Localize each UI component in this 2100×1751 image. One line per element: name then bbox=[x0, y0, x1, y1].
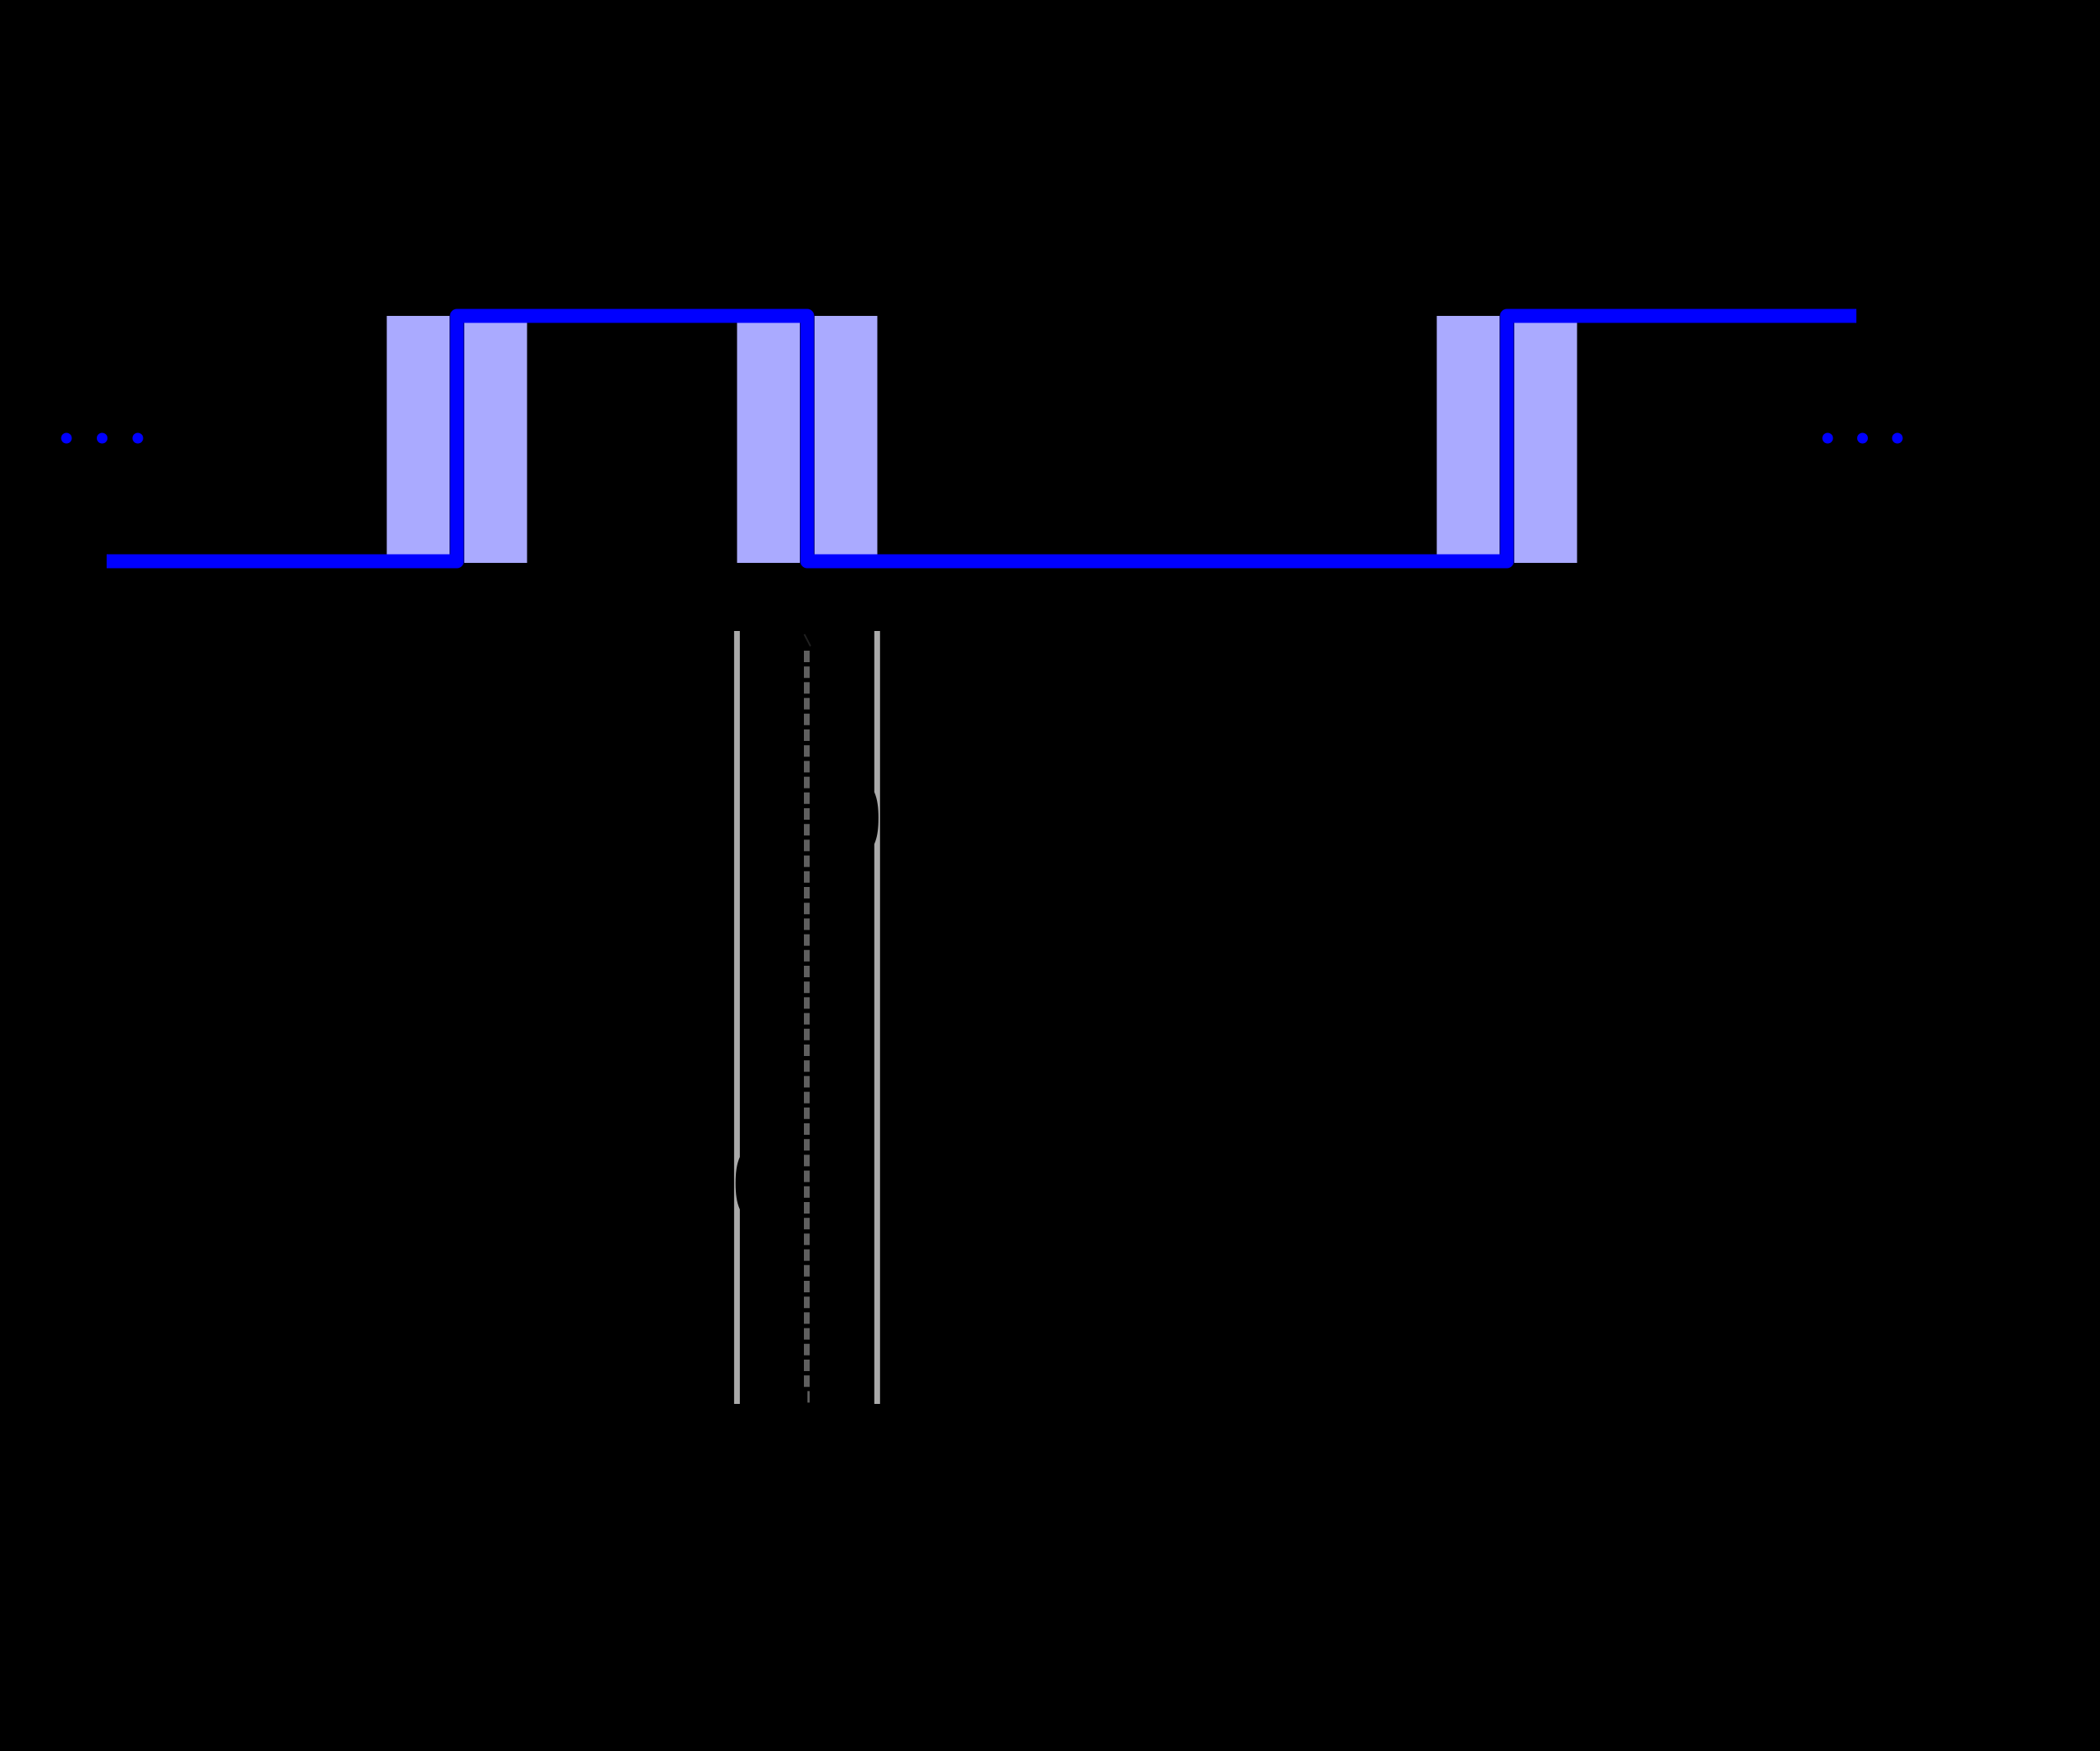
ellipsis dots left bbox=[62, 433, 72, 444]
black overlay: left-pointing arrowhead notch on left gray line bbox=[736, 1153, 749, 1214]
black overlay: right-pointing arrowhead notch on right gray line bbox=[865, 788, 879, 848]
black overlay: left half of bottom dash bbox=[802, 1388, 807, 1406]
ellipsis dots right bbox=[1823, 433, 1833, 444]
jitter band: edge 1 right (high side) bbox=[464, 322, 527, 563]
jitter band: edge 1 left (low side) bbox=[387, 316, 450, 556]
marker line: right boundary (gray) bbox=[874, 631, 880, 1404]
faint remnant of covered first dash (AA streak) bbox=[805, 634, 811, 647]
signal trace: blue square wave bbox=[107, 316, 1856, 561]
jitter band: edge 3 left (low side) bbox=[1437, 316, 1500, 556]
jitter band: edge 2 left (high side) bbox=[737, 322, 801, 563]
marker line: nominal edge (dashed gray) bbox=[804, 651, 810, 1404]
marker line: left boundary (gray) bbox=[734, 631, 740, 1404]
jitter band: edge 3 right (high side) bbox=[1514, 322, 1577, 563]
jitter band: edge 2 right (low side) bbox=[815, 316, 878, 556]
